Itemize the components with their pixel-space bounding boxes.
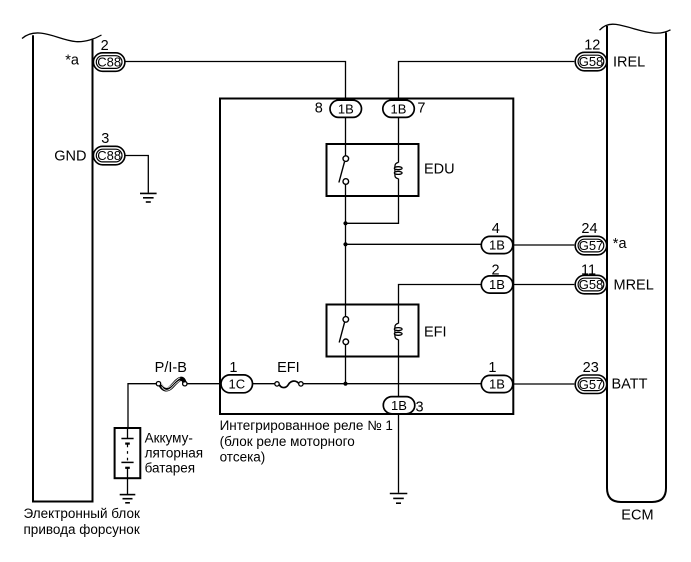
wire: battery riser and left end of bottom bus bbox=[128, 384, 156, 428]
wire: EFI switch bottom to junction C bbox=[345, 345, 347, 384]
wire: P/I-B to 1C oval bbox=[187, 383, 221, 385]
svg-text:1B: 1B bbox=[391, 101, 407, 116]
relay pin8 1B oval bbox=[330, 100, 362, 117]
svg-text:1B: 1B bbox=[489, 277, 505, 292]
wire: pin1 1B to G57 pin23 bbox=[513, 383, 575, 385]
svg-text:*a: *a bbox=[65, 53, 80, 69]
fusible link P/I-B body bbox=[161, 379, 185, 390]
relay pin1 1B oval (right) bbox=[481, 375, 513, 392]
wire: C88 pin3 to ground bbox=[125, 156, 148, 193]
svg-text:1: 1 bbox=[488, 360, 496, 376]
ground symbol under battery bbox=[120, 495, 136, 503]
wire: EDU coil bottom to junction A bbox=[346, 179, 399, 224]
injector driver module bottom edge bbox=[32, 501, 94, 503]
junction B bbox=[343, 242, 347, 246]
svg-text:MREL: MREL bbox=[614, 278, 654, 294]
ECM module wavy top bbox=[600, 24, 671, 33]
svg-text:8: 8 bbox=[315, 101, 323, 117]
wire: pin2 1B to EFI coil bbox=[399, 285, 482, 324]
ground symbol under relay pin3 bbox=[390, 494, 408, 504]
injector driver module left edge bbox=[32, 35, 34, 501]
svg-text:1C: 1C bbox=[228, 377, 245, 392]
connector G57 pin24 oval bbox=[575, 236, 607, 255]
wire: EFI fuse to pin1 1B oval bbox=[303, 383, 481, 385]
connector C88 pin3 oval bbox=[93, 146, 125, 165]
svg-text:*a: *a bbox=[613, 236, 628, 252]
svg-text:Интегрированное реле № 1: Интегрированное реле № 1 bbox=[220, 418, 393, 433]
svg-text:7: 7 bbox=[417, 101, 425, 117]
svg-text:BATT: BATT bbox=[612, 376, 648, 392]
wire: junction B to pin4 bbox=[346, 243, 482, 245]
svg-text:батарея: батарея bbox=[145, 460, 196, 475]
svg-text:1: 1 bbox=[229, 360, 237, 376]
junction A bbox=[343, 221, 347, 225]
EFI switch contact bottom bbox=[343, 339, 349, 345]
connector G58 pin12 oval bbox=[575, 52, 607, 71]
battery plate short 2 bbox=[125, 467, 130, 469]
fuse EFI wavy element bbox=[279, 381, 298, 388]
svg-text:G57: G57 bbox=[579, 377, 604, 392]
svg-text:привода форсунок: привода форсунок bbox=[24, 522, 140, 537]
wire: G58 pin12 to relay pin7 bbox=[399, 62, 575, 100]
ground symbol under C88 pin3 bbox=[140, 193, 157, 202]
svg-text:Электронный блок: Электронный блок bbox=[24, 506, 140, 521]
EDU switch lever bbox=[339, 162, 345, 183]
relay EDU box bbox=[327, 144, 419, 196]
svg-text:23: 23 bbox=[583, 360, 599, 376]
wire: EDU switch down through junctions to EFI switch bbox=[345, 184, 347, 316]
svg-text:(блок реле моторного: (блок реле моторного bbox=[220, 434, 355, 449]
EFI switch lever bbox=[339, 322, 344, 342]
svg-text:G58: G58 bbox=[579, 54, 604, 69]
relay pin4 1B oval bbox=[481, 236, 513, 253]
svg-text:3: 3 bbox=[415, 400, 423, 416]
fuse EFI right terminal bbox=[299, 382, 303, 386]
relay EFI box bbox=[327, 305, 419, 357]
connector G58 pin11 oval bbox=[575, 275, 607, 294]
battery dashed middle bbox=[127, 445, 129, 462]
svg-text:12: 12 bbox=[584, 37, 600, 53]
wire: pin7 oval to EDU coil bbox=[398, 118, 400, 163]
battery rectangle bbox=[115, 428, 141, 478]
EFI switch contact top bbox=[343, 317, 349, 323]
EDU switch contact top bbox=[343, 156, 349, 162]
svg-text:C88: C88 bbox=[97, 55, 121, 70]
ECM module body (sides + rounded bottom) bbox=[607, 26, 666, 502]
big box: integrated relay No.1 bbox=[220, 99, 513, 415]
wire: pin3 to ground bbox=[398, 414, 400, 493]
svg-text:24: 24 bbox=[581, 221, 597, 237]
wire: C88 pin2 to relay pin8 bbox=[125, 62, 346, 100]
svg-text:G58: G58 bbox=[579, 277, 604, 292]
wire: pin2 1B to G58 pin11 bbox=[513, 284, 575, 286]
wire: battery to ground bbox=[127, 468, 129, 494]
EFI coil bbox=[394, 323, 402, 339]
EDU coil bbox=[394, 162, 402, 178]
EDU switch contact bottom bbox=[343, 179, 349, 185]
injector driver module right edge bbox=[92, 40, 94, 502]
svg-text:1B: 1B bbox=[489, 377, 505, 392]
battery plate short 1 bbox=[125, 443, 130, 445]
junction C bbox=[343, 382, 347, 386]
fusible link P/I-B left terminal bbox=[156, 382, 160, 386]
relay pin3 1B oval (bottom) bbox=[383, 397, 415, 414]
svg-text:IREL: IREL bbox=[613, 54, 645, 70]
fusible link P/I-B right terminal bbox=[183, 382, 187, 386]
svg-text:11: 11 bbox=[581, 263, 596, 279]
svg-text:ECM: ECM bbox=[621, 507, 653, 523]
svg-text:1B: 1B bbox=[338, 101, 354, 116]
wire: pin8 oval to EDU switch bbox=[345, 118, 347, 156]
wire: 1C oval to EFI fuse bbox=[253, 383, 275, 385]
svg-text:C88: C88 bbox=[97, 148, 121, 163]
svg-text:P/I-B: P/I-B bbox=[155, 360, 187, 376]
svg-text:EFI: EFI bbox=[424, 324, 447, 340]
relay pin7 1B oval bbox=[383, 100, 415, 117]
svg-text:2: 2 bbox=[101, 38, 109, 54]
svg-text:EDU: EDU bbox=[424, 162, 455, 178]
svg-text:3: 3 bbox=[101, 131, 109, 147]
connector G57 pin23 oval bbox=[575, 375, 607, 394]
fuse EFI left terminal bbox=[275, 382, 279, 386]
connector C88 pin2 oval bbox=[93, 53, 125, 72]
svg-text:Аккуму-: Аккуму- bbox=[145, 430, 193, 445]
wire: EFI coil to pin3 oval bbox=[398, 340, 400, 397]
relay pin1 1C oval (left) bbox=[221, 375, 253, 393]
svg-text:отсека): отсека) bbox=[220, 450, 266, 465]
svg-text:GND: GND bbox=[54, 149, 86, 165]
battery plate long 2 bbox=[121, 461, 133, 463]
svg-text:EFI: EFI bbox=[277, 360, 300, 376]
svg-text:4: 4 bbox=[492, 221, 500, 237]
svg-text:1B: 1B bbox=[391, 398, 407, 413]
svg-text:1B: 1B bbox=[489, 238, 505, 253]
battery top lead inside bbox=[127, 428, 129, 438]
relay pin2 1B oval bbox=[481, 276, 513, 293]
svg-text:G57: G57 bbox=[579, 238, 604, 253]
wire: pin4 to G57 pin24 bbox=[513, 244, 575, 246]
svg-text:ляторная: ляторная bbox=[145, 445, 204, 460]
injector driver module (Электронный блок привода форсунок) wavy top bbox=[22, 33, 102, 42]
battery plate long 1 bbox=[121, 438, 133, 440]
